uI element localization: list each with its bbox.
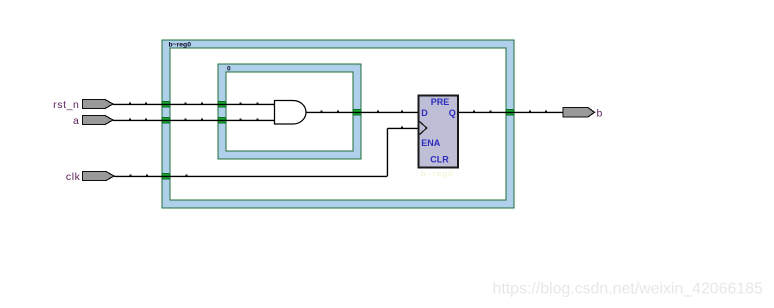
wire clk to dff: [387, 127, 418, 129]
svg-text:CLR: CLR: [430, 154, 449, 164]
port out on inner box: [353, 109, 361, 115]
input pin a: [83, 116, 114, 125]
wire clk horizontal: [114, 175, 387, 177]
dff U1: [419, 96, 459, 168]
svg-text:clk: clk: [66, 171, 81, 183]
port rst_n on outer box: [162, 101, 170, 107]
inner box 0: [218, 64, 361, 159]
port a on outer box: [162, 117, 170, 123]
port a on inner box: [218, 117, 226, 123]
output pin b: [563, 108, 595, 118]
module box b~reg0: [162, 40, 514, 208]
wire clk vertical: [386, 128, 388, 176]
wire a to AND: [113, 119, 274, 121]
and-gate: [275, 101, 307, 125]
svg-text:b~reg0: b~reg0: [169, 41, 192, 48]
wire rst_n to AND: [113, 103, 274, 105]
svg-text:rst_n: rst_n: [53, 99, 79, 111]
svg-text:b: b: [597, 107, 603, 119]
wire AND out to D: [306, 111, 418, 113]
svg-text:Q: Q: [449, 108, 456, 118]
wire dots: [129, 103, 547, 176]
svg-text:D: D: [421, 108, 428, 118]
svg-text:a: a: [73, 115, 79, 127]
dff clock triangle: [420, 122, 427, 135]
svg-text:https://blog.csdn.net/weixin_4: https://blog.csdn.net/weixin_42066185: [493, 280, 763, 297]
port rst_n on inner box: [218, 101, 226, 107]
svg-text:0: 0: [227, 66, 231, 73]
input pin rst_n: [83, 100, 114, 109]
input pin clk: [83, 172, 115, 181]
svg-text:PRE: PRE: [431, 97, 450, 107]
svg-text:ENA: ENA: [421, 138, 441, 148]
port q on outer box: [506, 109, 514, 115]
port clk on outer box: [162, 173, 170, 179]
wire Q to output pin: [458, 111, 563, 113]
svg-text:b~reg0: b~reg0: [421, 169, 455, 179]
